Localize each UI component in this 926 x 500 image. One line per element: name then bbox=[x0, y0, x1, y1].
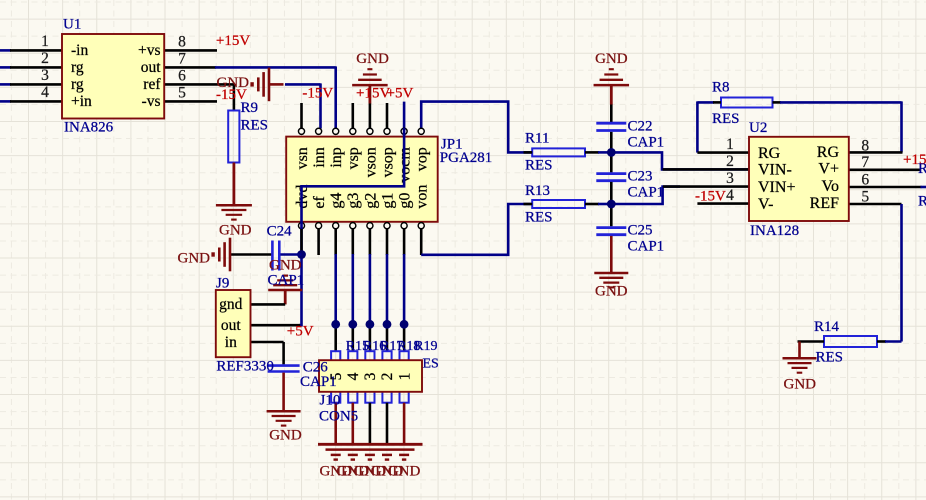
svg-text:R11: R11 bbox=[525, 131, 549, 147]
svg-text:GND: GND bbox=[219, 223, 252, 239]
svg-text:-15V: -15V bbox=[695, 189, 726, 205]
svg-text:4: 4 bbox=[726, 187, 734, 204]
svg-text:R: R bbox=[918, 161, 926, 177]
svg-text:rg: rg bbox=[71, 76, 84, 93]
svg-text:VIN+: VIN+ bbox=[758, 179, 795, 196]
svg-text:g1: g1 bbox=[379, 193, 396, 209]
svg-text:+5V: +5V bbox=[287, 324, 314, 340]
svg-text:V+: V+ bbox=[818, 161, 839, 178]
svg-text:5: 5 bbox=[328, 372, 345, 380]
svg-text:REF: REF bbox=[810, 195, 839, 212]
svg-text:vop: vop bbox=[414, 147, 431, 171]
svg-text:-15V: -15V bbox=[302, 86, 333, 102]
svg-text:8: 8 bbox=[861, 137, 869, 154]
svg-text:ef: ef bbox=[311, 195, 328, 208]
svg-text:INA826: INA826 bbox=[64, 120, 114, 136]
svg-text:PGA281: PGA281 bbox=[440, 150, 493, 166]
svg-text:in: in bbox=[225, 334, 237, 351]
svg-text:5: 5 bbox=[178, 85, 186, 102]
svg-text:R19: R19 bbox=[414, 339, 437, 354]
svg-text:GND: GND bbox=[356, 51, 389, 67]
svg-text:2: 2 bbox=[41, 50, 49, 67]
svg-text:R: R bbox=[918, 193, 926, 209]
svg-text:inp: inp bbox=[328, 147, 345, 167]
svg-text:VIN-: VIN- bbox=[758, 162, 792, 179]
svg-text:6: 6 bbox=[178, 68, 186, 85]
svg-text:6: 6 bbox=[861, 171, 869, 188]
svg-text:1: 1 bbox=[41, 33, 49, 50]
svg-text:von: von bbox=[414, 185, 431, 209]
svg-text:GND: GND bbox=[269, 428, 302, 444]
svg-text:g4: g4 bbox=[328, 193, 345, 209]
svg-text:+5V: +5V bbox=[387, 86, 414, 102]
svg-text:4: 4 bbox=[41, 84, 49, 101]
svg-text:CON5: CON5 bbox=[319, 409, 358, 425]
svg-text:REF3330: REF3330 bbox=[216, 358, 274, 374]
svg-text:-vs: -vs bbox=[142, 93, 161, 110]
svg-text:ES: ES bbox=[423, 357, 439, 372]
svg-text:U2: U2 bbox=[749, 120, 767, 136]
svg-text:ref: ref bbox=[143, 76, 161, 93]
svg-text:vsop: vsop bbox=[379, 147, 396, 177]
svg-text:CAP1: CAP1 bbox=[628, 184, 665, 200]
svg-text:C24: C24 bbox=[267, 223, 293, 239]
svg-text:R13: R13 bbox=[525, 183, 550, 199]
svg-text:2: 2 bbox=[726, 153, 734, 170]
svg-text:Vo: Vo bbox=[822, 178, 840, 195]
svg-text:CAP1: CAP1 bbox=[628, 238, 665, 254]
svg-text:g2: g2 bbox=[362, 193, 379, 209]
svg-text:out: out bbox=[221, 317, 242, 334]
svg-text:C23: C23 bbox=[628, 168, 653, 184]
svg-text:GND: GND bbox=[178, 251, 211, 267]
svg-text:RG: RG bbox=[758, 145, 781, 162]
svg-text:U1: U1 bbox=[63, 17, 81, 33]
svg-text:R14: R14 bbox=[814, 319, 840, 335]
svg-text:GND: GND bbox=[595, 51, 628, 67]
svg-text:rg: rg bbox=[71, 59, 84, 76]
svg-text:gnd: gnd bbox=[219, 296, 243, 313]
svg-text:GND: GND bbox=[388, 464, 421, 480]
svg-text:CAP1: CAP1 bbox=[628, 135, 665, 151]
svg-text:CAP1: CAP1 bbox=[268, 272, 305, 288]
svg-text:7: 7 bbox=[178, 51, 186, 68]
svg-text:+15V: +15V bbox=[216, 33, 250, 49]
svg-text:4: 4 bbox=[345, 372, 362, 380]
svg-text:GND: GND bbox=[595, 283, 628, 299]
svg-text:8: 8 bbox=[178, 34, 186, 51]
svg-text:3: 3 bbox=[726, 170, 734, 187]
svg-text:V-: V- bbox=[758, 196, 773, 213]
svg-text:RES: RES bbox=[525, 209, 553, 225]
svg-text:g3: g3 bbox=[345, 193, 362, 209]
svg-text:out: out bbox=[141, 59, 162, 76]
svg-text:-in: -in bbox=[71, 42, 88, 59]
svg-text:RG: RG bbox=[817, 144, 840, 161]
svg-text:vson: vson bbox=[362, 147, 379, 177]
svg-text:J10: J10 bbox=[320, 393, 341, 409]
svg-text:C25: C25 bbox=[628, 222, 653, 238]
svg-text:RES: RES bbox=[816, 349, 844, 365]
svg-text:RES: RES bbox=[525, 157, 553, 173]
svg-text:+15V: +15V bbox=[356, 86, 390, 102]
svg-text:1: 1 bbox=[396, 373, 413, 381]
svg-text:R9: R9 bbox=[241, 100, 259, 116]
svg-text:J9: J9 bbox=[216, 276, 229, 292]
svg-text:g0: g0 bbox=[397, 193, 414, 209]
svg-text:+vs: +vs bbox=[138, 42, 161, 59]
svg-text:2: 2 bbox=[379, 373, 396, 381]
svg-text:+in: +in bbox=[71, 93, 92, 110]
svg-text:vsp: vsp bbox=[345, 147, 362, 169]
svg-text:INA128: INA128 bbox=[750, 223, 799, 239]
svg-text:inn: inn bbox=[311, 147, 328, 167]
svg-text:1: 1 bbox=[726, 136, 734, 153]
svg-text:RES: RES bbox=[241, 117, 269, 133]
svg-text:GND: GND bbox=[784, 377, 817, 393]
svg-text:C22: C22 bbox=[628, 119, 653, 135]
svg-text:3: 3 bbox=[41, 67, 49, 84]
svg-text:vsn: vsn bbox=[294, 147, 311, 169]
svg-text:RES: RES bbox=[712, 111, 740, 127]
svg-text:5: 5 bbox=[861, 188, 869, 205]
svg-text:R8: R8 bbox=[712, 79, 730, 95]
svg-text:GND: GND bbox=[269, 257, 302, 273]
svg-text:3: 3 bbox=[362, 372, 379, 380]
svg-text:7: 7 bbox=[861, 154, 869, 171]
